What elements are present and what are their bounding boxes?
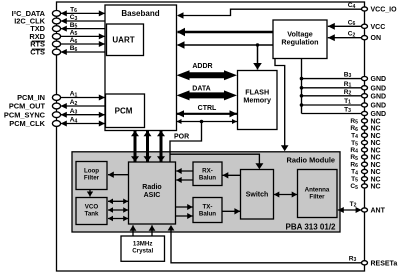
- svg-text:A5: A5: [70, 30, 78, 38]
- voltage regulation block: [273, 20, 327, 59]
- svg-text:A3: A3: [70, 108, 78, 116]
- svg-text:ASIC: ASIC: [144, 192, 161, 199]
- ADDR bus label: [192, 63, 212, 70]
- svg-text:Loop: Loop: [84, 168, 99, 175]
- svg-text:Switch: Switch: [246, 192, 269, 199]
- pin GND (T3) with wire: [302, 107, 387, 119]
- svg-text:A4: A4: [70, 117, 78, 125]
- pin GND (B3) with wire: [300, 72, 386, 84]
- svg-text:GND: GND: [371, 76, 387, 83]
- svg-text:RESETa: RESETa: [371, 260, 398, 267]
- svg-text:T1: T1: [344, 98, 351, 106]
- svg-text:Filter: Filter: [84, 175, 100, 182]
- svg-text:PCM_OUT: PCM_OUT: [9, 102, 46, 111]
- supply trace voltage regulation to radio module: [275, 59, 289, 152]
- svg-text:C4: C4: [348, 2, 356, 10]
- baseband radio bus arrow 1: [131, 131, 139, 162]
- svg-text:R1: R1: [344, 81, 352, 89]
- ADDR bus: [177, 70, 238, 80]
- svg-text:Radio Module: Radio Module: [287, 156, 335, 165]
- svg-text:Crystal: Crystal: [132, 248, 153, 255]
- svg-text:NC: NC: [371, 184, 381, 191]
- pin CTS (B6) with wire: [30, 45, 105, 56]
- svg-text:A6: A6: [70, 37, 78, 45]
- wire TX balun to switch: [222, 208, 240, 214]
- svg-text:Tank: Tank: [85, 211, 100, 218]
- svg-text:NC: NC: [371, 162, 381, 169]
- baseband radio bus arrow 3: [157, 131, 165, 162]
- pin NC (T4): [351, 133, 381, 141]
- svg-text:A1: A1: [70, 91, 78, 99]
- pin RTS (A6) with wire: [30, 37, 105, 48]
- pin I²C_DATA (T6) with wire: [12, 7, 105, 18]
- VCO tank block: [76, 198, 107, 225]
- svg-text:GND: GND: [371, 103, 387, 110]
- baseband radio bus arrow 2: [144, 131, 152, 162]
- RX balun block: [193, 162, 222, 186]
- wire VCO tank to radio ASIC 3: [108, 216, 128, 222]
- svg-text:NC: NC: [371, 140, 381, 147]
- wire radio ASIC to loop filter: [108, 172, 129, 178]
- UART block: [107, 24, 144, 56]
- svg-text:C5: C5: [350, 183, 358, 191]
- POR trace: [170, 120, 203, 162]
- svg-text:Regulation: Regulation: [281, 38, 318, 47]
- wire radio ASIC to TX balun 1: [176, 204, 193, 210]
- svg-text:NC: NC: [371, 133, 381, 140]
- svg-text:B6: B6: [70, 45, 78, 53]
- svg-text:T3: T3: [344, 107, 351, 115]
- svg-text:ADDR: ADDR: [192, 63, 212, 70]
- pin GND (R1) with wire: [300, 81, 386, 93]
- wire radio ASIC to TX balun 2: [176, 213, 193, 219]
- svg-text:Balun: Balun: [199, 175, 216, 182]
- pin ANT (T2) with wire to antenna filter: [338, 201, 386, 215]
- pin VCC (C6) with wire to voltage regulation: [328, 19, 385, 31]
- switch control trace: [170, 154, 263, 169]
- pin TXD (B5) with wire: [30, 22, 105, 33]
- pin I2C_CLK (C3) with wire: [14, 14, 105, 25]
- ground bus from voltage regulation: [301, 59, 303, 114]
- svg-text:POR: POR: [174, 134, 189, 141]
- wire switch to RX balun: [223, 172, 241, 178]
- loop filter block: [76, 162, 107, 190]
- svg-text:C6: C6: [348, 19, 356, 27]
- wire RX balun to radio ASIC 2: [176, 177, 193, 183]
- pin GND (T1) with wire: [300, 98, 386, 110]
- svg-text:Filter: Filter: [309, 194, 325, 201]
- pin NC (R6): [350, 125, 380, 133]
- svg-text:VCC: VCC: [371, 24, 386, 31]
- svg-text:TX-: TX-: [203, 204, 213, 211]
- pin PCM_SYNC (A3) with wire: [4, 108, 105, 119]
- pin PCM_IN (A1) with wire: [17, 91, 105, 102]
- pin VCC_IO (C4) with trace to baseband: [177, 2, 397, 19]
- pin NC (R5): [350, 154, 380, 162]
- pin NC (T4): [351, 169, 381, 177]
- svg-text:PBA 313 01/2: PBA 313 01/2: [286, 223, 337, 232]
- PCM block: [106, 94, 145, 128]
- wire RX balun to radio ASIC 1: [176, 168, 193, 174]
- supply drop to flash memory: [253, 43, 262, 69]
- crystal wire 1: [130, 225, 137, 236]
- radio module outline: [72, 152, 340, 232]
- DATA bus label: [192, 86, 210, 93]
- radio module label: [287, 156, 335, 165]
- pin RESETa (R3) with trace to radio ASIC: [168, 225, 398, 267]
- svg-text:NC: NC: [371, 176, 381, 183]
- pin NC (R4): [350, 147, 380, 155]
- pin PCM_CLK (A4) with wire: [9, 117, 105, 128]
- crystal wire 2: [149, 225, 156, 236]
- svg-text:T6: T6: [70, 7, 77, 15]
- svg-text:ON: ON: [371, 35, 382, 42]
- svg-text:Baseband: Baseband: [121, 9, 159, 18]
- pin NC (T5): [351, 140, 381, 148]
- CTRL bus label: [198, 105, 217, 112]
- CTRL bus: [177, 110, 238, 117]
- wire VCO tank to radio ASIC 2: [108, 207, 128, 213]
- TX balun block: [193, 198, 222, 223]
- radio ASIC block: [129, 162, 176, 224]
- svg-text:C2: C2: [348, 31, 356, 39]
- svg-text:B5: B5: [70, 22, 78, 30]
- svg-text:GND: GND: [371, 93, 387, 100]
- svg-text:13MHz: 13MHz: [133, 241, 153, 248]
- module boundary rectangle: [57, 2, 365, 271]
- svg-text:NC: NC: [371, 169, 381, 176]
- svg-text:NC: NC: [371, 147, 381, 154]
- pin NC (C5): [350, 183, 380, 191]
- pin RXD (A5) with wire: [29, 30, 105, 41]
- svg-text:Antenna: Antenna: [305, 187, 330, 194]
- pin GND (R2) with wire: [300, 89, 386, 101]
- svg-text:R2: R2: [344, 89, 352, 97]
- pin NC (R5): [350, 118, 380, 126]
- bold supply arrow voltage regulation to baseband: [177, 28, 273, 36]
- svg-text:NC: NC: [371, 126, 381, 133]
- wire loop filter to VCO tank: [87, 190, 93, 197]
- svg-text:DATA: DATA: [192, 86, 210, 93]
- svg-text:UART: UART: [112, 36, 134, 45]
- flash memory block: [238, 71, 278, 130]
- svg-text:GND: GND: [371, 111, 387, 118]
- PBA 313 01/2 label: [286, 223, 337, 232]
- svg-text:T2: T2: [350, 201, 357, 209]
- svg-text:PCM_SYNC: PCM_SYNC: [4, 110, 46, 119]
- svg-text:VCO: VCO: [85, 204, 99, 211]
- svg-text:CTRL: CTRL: [198, 105, 217, 112]
- svg-text:A2: A2: [70, 99, 78, 107]
- svg-text:GND: GND: [371, 85, 387, 92]
- svg-text:NC: NC: [371, 155, 381, 162]
- DATA bus: [177, 90, 238, 100]
- svg-text:R3: R3: [349, 255, 357, 263]
- svg-text:Balun: Balun: [199, 211, 216, 218]
- svg-text:C3: C3: [70, 14, 78, 22]
- pin NC (T5): [351, 176, 381, 184]
- svg-text:PCM_CLK: PCM_CLK: [9, 119, 45, 128]
- svg-text:Radio: Radio: [142, 184, 161, 191]
- svg-text:B3: B3: [344, 72, 352, 80]
- POR label: [174, 134, 189, 141]
- svg-text:VCC_IO: VCC_IO: [371, 7, 398, 14]
- flash auxiliary wire: [177, 119, 238, 124]
- svg-text:ANT: ANT: [371, 208, 386, 215]
- antenna filter block: [298, 170, 338, 218]
- pin ON (C2) with wire to voltage regulation: [328, 31, 381, 43]
- svg-text:Memory: Memory: [243, 96, 271, 105]
- baseband block: [105, 5, 177, 131]
- pin NC (R6): [350, 162, 380, 170]
- 13MHz crystal block: [121, 236, 165, 261]
- svg-text:PCM: PCM: [115, 107, 133, 116]
- pin PCM_OUT (A2) with wire: [9, 99, 105, 110]
- supply arrow voltage regulation to baseband: [177, 41, 273, 49]
- switch block: [241, 170, 274, 220]
- wire VCO tank to radio ASIC 1: [108, 199, 128, 205]
- svg-text:RX-: RX-: [202, 168, 213, 175]
- wire switch to antenna filter: [274, 192, 297, 198]
- svg-text:NC: NC: [371, 118, 381, 125]
